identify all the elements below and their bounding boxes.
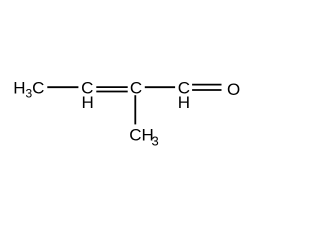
svg-text:H: H [178,93,190,112]
svg-text:H: H [81,93,93,112]
wire: single bond H3C-C1 [47,86,78,88]
svg-text:3: 3 [152,134,159,149]
wire: double bond C1=C2 upper line [96,86,127,88]
structural formula of 2-methyl-2-butenal [0,0,255,227]
wire: double bond C3=O lower line [192,89,221,91]
svg-text:C: C [130,78,142,97]
svg-text:H3C: H3C [13,78,44,100]
wire: double bond C3=O upper line [192,84,221,86]
wire: double bond C1=C2 lower line [96,91,127,93]
wire: single bond C2-C3 [145,86,175,88]
wire: vertical bond C2-CH3 [134,95,136,124]
svg-text:O: O [227,80,240,99]
svg-text:CH: CH [129,125,154,144]
